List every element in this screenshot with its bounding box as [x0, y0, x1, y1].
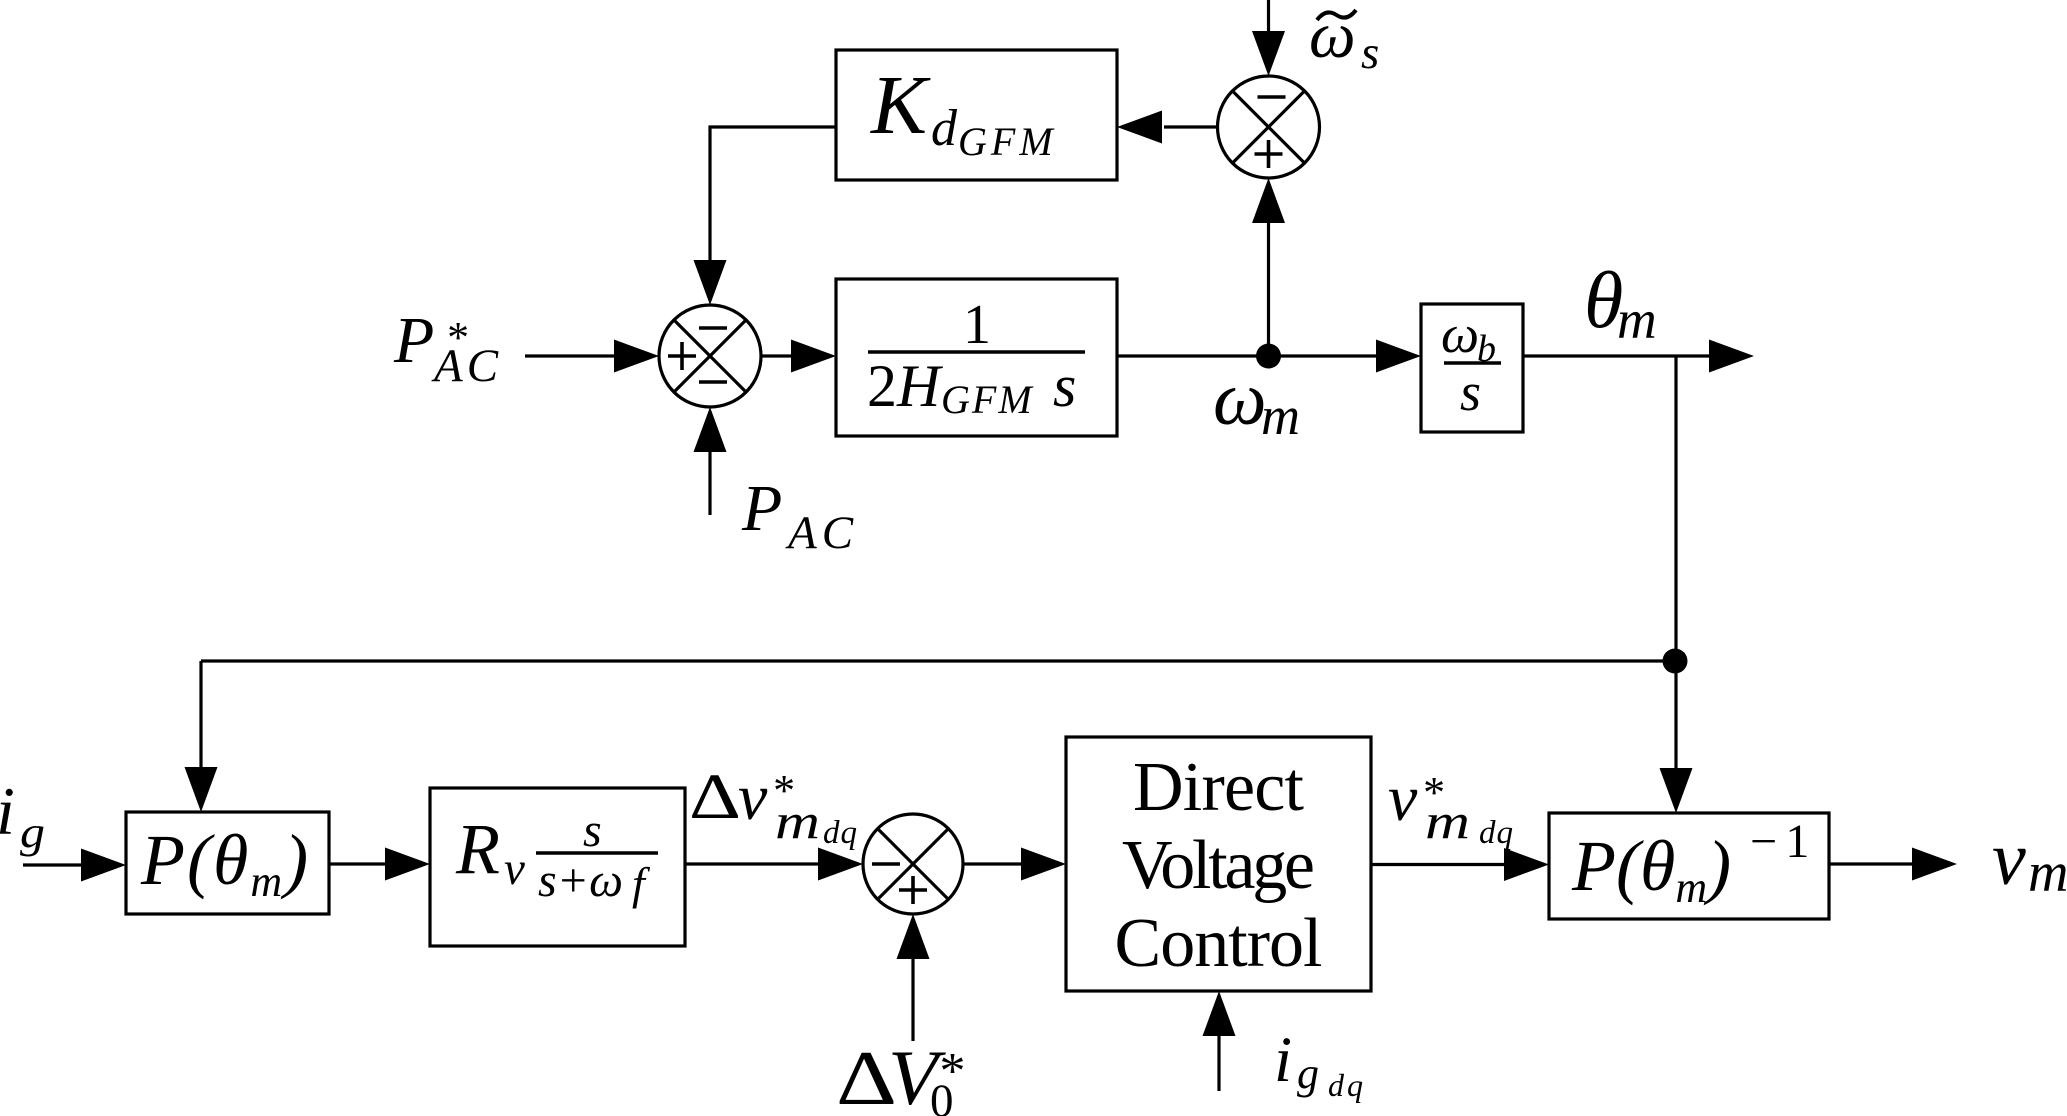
svg-text:R: R [455, 809, 500, 889]
svg-text:2H: 2H [867, 353, 944, 419]
svg-text:0: 0 [930, 1075, 954, 1116]
svg-text:dq: dq [1328, 1067, 1366, 1103]
svg-text:−1: −1 [1747, 815, 1809, 868]
svg-text:Direct: Direct [1133, 749, 1305, 826]
svg-text:g: g [1297, 1049, 1319, 1098]
svg-text:ω: ω [1309, 0, 1356, 72]
svg-text:v: v [1992, 817, 2026, 901]
svg-text:AC: AC [431, 340, 502, 392]
svg-text:m: m [1617, 289, 1657, 350]
svg-text:GFM: GFM [958, 119, 1057, 164]
svg-text:v: v [738, 761, 768, 834]
svg-text:i: i [1274, 1024, 1292, 1096]
svg-text:Voltage: Voltage [1122, 827, 1315, 904]
svg-text:m: m [775, 793, 820, 849]
svg-text:P(θm): P(θm) [1571, 826, 1731, 912]
svg-text:ω: ω [1213, 357, 1267, 441]
svg-text:Control: Control [1115, 905, 1323, 982]
svg-text:i: i [0, 773, 15, 849]
svg-text:v: v [504, 843, 525, 895]
svg-text:m: m [2028, 842, 2067, 904]
svg-text:s: s [1361, 27, 1379, 79]
svg-text:dq: dq [823, 815, 858, 851]
svg-text:s+ω: s+ω [538, 854, 623, 907]
svg-text:g: g [20, 808, 45, 857]
svg-text:ω: ω [1441, 304, 1479, 364]
svg-text:d: d [931, 100, 958, 157]
svg-text:P(θm): P(θm) [140, 820, 310, 906]
svg-text:m: m [1425, 793, 1470, 849]
svg-text:v: v [1388, 762, 1418, 835]
svg-text:GFM: GFM [941, 377, 1034, 422]
svg-text:P: P [393, 304, 434, 377]
svg-text:1: 1 [963, 294, 991, 356]
svg-text:s: s [1460, 362, 1481, 422]
svg-text:s: s [583, 804, 602, 857]
svg-text:P: P [741, 472, 782, 545]
svg-text:AC: AC [785, 507, 858, 559]
svg-text:Δ: Δ [689, 761, 741, 833]
svg-text:dq: dq [1479, 815, 1514, 851]
svg-text:K: K [870, 59, 931, 152]
svg-text:s: s [1053, 353, 1076, 419]
svg-text:m: m [1261, 386, 1300, 446]
